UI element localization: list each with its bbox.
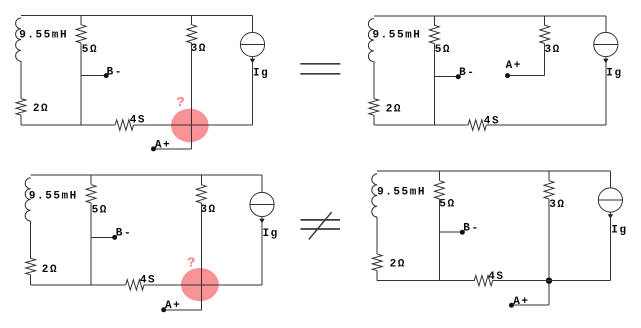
wire 3Ω branch lower (bottom-left circuit) — [200, 203, 202, 285]
wire 3Ω branch upper (top-left circuit) — [191, 15, 193, 24]
wire node B- stub (bottom-right circuit) — [439, 231, 462, 233]
wire node A+ stub (bottom-left circuit) — [164, 309, 202, 311]
wire 5Ω branch upper (bottom-left circuit) — [90, 175, 92, 185]
svg-text:2Ω: 2Ω — [390, 259, 406, 271]
svg-text:5Ω: 5Ω — [82, 44, 98, 56]
wire 3Ω branch upper (bottom-left circuit) — [200, 175, 202, 185]
svg-text:2Ω: 2Ω — [42, 264, 58, 276]
wire bottom left (bottom-left circuit) — [31, 284, 126, 286]
wire 5Ω branch lower (bottom-left circuit) — [90, 203, 92, 285]
node A+ terminal dot (bottom-left circuit) — [161, 307, 166, 312]
svg-text:9.55mH: 9.55mH — [377, 187, 426, 199]
current source Ig chord (bottom-left circuit) — [250, 204, 274, 206]
wire top (top-right circuit) — [374, 15, 606, 17]
wire bottom right (top-left circuit) — [134, 124, 253, 126]
wire 5Ω branch lower (bottom-right circuit) — [438, 199, 440, 281]
wire 3Ω branch lower (bottom-right circuit) — [548, 199, 550, 281]
wire left lower (top-right circuit) — [373, 115, 375, 125]
resistor 3Ω (bottom-right circuit) — [544, 181, 554, 199]
wire left lower (bottom-left circuit) — [30, 275, 32, 285]
wire bottom right (bottom-left circuit) — [144, 284, 262, 286]
wire 3Ω branch lower (top-right circuit) — [544, 44, 546, 76]
resistor 2Ω (bottom-left circuit) — [26, 258, 36, 275]
wire bottom left (top-right circuit) — [374, 124, 468, 126]
svg-text:B-: B- — [116, 227, 132, 239]
svg-text:?: ? — [187, 255, 195, 271]
inductor 9.55mH (top-right circuit) — [368, 19, 373, 62]
wire bottom right (top-right circuit) — [486, 124, 605, 126]
wire bottom right (bottom-right circuit) — [493, 280, 611, 282]
resistor 3Ω (top-right circuit) — [540, 25, 550, 43]
svg-text:A+: A+ — [506, 60, 522, 72]
wire node A+ stub (bottom-right circuit) — [512, 304, 550, 306]
resistor 2Ω (bottom-right circuit) — [372, 254, 382, 271]
wire left mid (top-left circuit) — [20, 61, 22, 98]
node A+ terminal dot (top-right circuit) — [505, 73, 510, 78]
wire source branch lower (bottom-left circuit) — [261, 217, 263, 285]
node A+ terminal dot (top-left circuit) — [151, 146, 156, 151]
resistor 4S (top-right circuit) — [468, 120, 486, 130]
wire left lower (bottom-right circuit) — [376, 271, 378, 281]
svg-text:Ig: Ig — [606, 68, 622, 80]
wire source branch lower (top-left circuit) — [252, 57, 254, 125]
node A+ terminal dot (bottom-right circuit) — [509, 303, 514, 308]
node B- terminal dot (bottom-right circuit) — [460, 230, 465, 235]
svg-text:4S: 4S — [484, 116, 500, 128]
wire source branch lower (top-right circuit) — [605, 57, 607, 125]
wire source branch lower (bottom-right circuit) — [609, 212, 611, 281]
svg-text:A+: A+ — [513, 296, 529, 308]
resistor 5Ω (top-left circuit) — [76, 25, 86, 43]
resistor 2Ω (top-left circuit) — [16, 99, 26, 116]
node B- terminal dot (bottom-left circuit) — [112, 235, 117, 240]
resistor 3Ω (bottom-left circuit) — [196, 185, 206, 203]
junction dot 3Ω/bottom-wire (bottom-right circuit) — [546, 278, 552, 284]
resistor 4S (bottom-right circuit) — [474, 276, 492, 286]
svg-text:Ig: Ig — [253, 68, 269, 80]
equals sign lower bar — [300, 73, 340, 75]
svg-text:9.55mH: 9.55mH — [29, 190, 78, 202]
svg-text:B-: B- — [107, 66, 123, 78]
wire node B- stub (top-right circuit) — [434, 76, 458, 78]
resistor 5Ω (bottom-left circuit) — [86, 185, 96, 203]
svg-text:Ig: Ig — [611, 225, 627, 237]
not-equal sign upper bar — [301, 219, 341, 221]
svg-text:9.55mH: 9.55mH — [19, 30, 68, 42]
not-equal sign lower bar — [301, 228, 341, 230]
wire bottom left (bottom-right circuit) — [377, 280, 474, 282]
svg-text:9.55mH: 9.55mH — [373, 30, 422, 42]
svg-text:5Ω: 5Ω — [439, 199, 455, 211]
highlight circle (top-left circuit) — [171, 109, 209, 143]
node B- terminal dot (top-right circuit) — [456, 74, 461, 79]
current source Ig arrowhead (top-left circuit) — [250, 59, 255, 64]
current source Ig circle (top-left circuit) — [240, 32, 264, 56]
wire node A+ stub (top-right circuit) — [508, 75, 545, 77]
wire left mid (top-right circuit) — [373, 62, 375, 99]
wire 3Ω branch lower (top-left circuit) — [191, 43, 193, 125]
current source Ig arrowhead (top-right circuit) — [603, 59, 608, 64]
wire 5Ω branch upper (top-right circuit) — [433, 16, 435, 25]
current source Ig circle (bottom-left circuit) — [250, 192, 274, 216]
svg-text:2Ω: 2Ω — [386, 104, 402, 116]
inductor 9.55mH (top-left circuit) — [16, 18, 21, 61]
current source Ig chord (top-right circuit) — [594, 44, 618, 46]
wire left mid (bottom-right circuit) — [376, 217, 378, 254]
wire node B- stub (bottom-left circuit) — [91, 236, 115, 238]
resistor 3Ω (top-left circuit) — [187, 25, 197, 43]
current source Ig chord (bottom-right circuit) — [598, 199, 622, 201]
svg-text:3Ω: 3Ω — [545, 44, 561, 56]
resistor 4S (bottom-left circuit) — [126, 280, 144, 290]
svg-text:3Ω: 3Ω — [549, 199, 565, 211]
svg-text:5Ω: 5Ω — [435, 44, 451, 56]
current source Ig circle (bottom-right circuit) — [598, 188, 622, 212]
svg-text:2Ω: 2Ω — [33, 103, 49, 115]
wire source branch upper (top-left circuit) — [252, 15, 254, 32]
wire top (bottom-right circuit) — [377, 170, 610, 172]
wire top (bottom-left circuit) — [31, 174, 262, 176]
resistor 5Ω (bottom-right circuit) — [435, 181, 445, 199]
wire 5Ω branch upper (top-left circuit) — [80, 15, 82, 24]
svg-text:3Ω: 3Ω — [200, 204, 216, 216]
wire source branch upper (bottom-left circuit) — [261, 175, 263, 192]
wire 3Ω branch upper (bottom-right circuit) — [548, 171, 550, 181]
wire 5Ω branch lower (top-right circuit) — [433, 44, 435, 126]
svg-text:5Ω: 5Ω — [92, 204, 108, 216]
svg-text:3Ω: 3Ω — [191, 43, 207, 55]
wire A+ drop (top-left circuit) — [191, 125, 193, 149]
svg-text:A+: A+ — [165, 300, 181, 312]
not-equal sign slash — [309, 212, 332, 240]
resistor 5Ω (top-right circuit) — [429, 25, 439, 43]
wire top (top-left circuit) — [21, 14, 253, 16]
wire source branch upper (top-right circuit) — [605, 16, 607, 33]
wire left mid (bottom-left circuit) — [30, 221, 32, 258]
svg-text:?: ? — [176, 95, 184, 111]
wire A+ drop (bottom-right circuit) — [548, 281, 550, 306]
svg-text:B-: B- — [459, 67, 475, 79]
highlight circle (bottom-left circuit) — [181, 268, 219, 301]
svg-text:A+: A+ — [155, 140, 171, 152]
svg-text:Ig: Ig — [263, 228, 279, 240]
equals sign upper bar — [300, 63, 340, 65]
wire left lower (top-left circuit) — [20, 115, 22, 125]
current source Ig circle (top-right circuit) — [594, 32, 618, 56]
wire node B- stub (top-left circuit) — [81, 75, 106, 77]
wire node A+ stub (top-left circuit) — [154, 148, 192, 150]
wire 3Ω branch upper (top-right circuit) — [544, 16, 546, 25]
svg-text:B-: B- — [463, 222, 479, 234]
wire A+ drop (bottom-left circuit) — [200, 285, 202, 310]
wire 5Ω branch lower (top-left circuit) — [80, 43, 82, 125]
inductor 9.55mH (bottom-right circuit) — [372, 174, 377, 217]
current source Ig chord (top-left circuit) — [240, 44, 264, 46]
wire bottom left (top-left circuit) — [21, 124, 115, 126]
inductor 9.55mH (bottom-left circuit) — [25, 178, 30, 221]
resistor 2Ω (top-right circuit) — [369, 99, 379, 116]
node B- terminal dot (top-left circuit) — [104, 73, 109, 78]
resistor 4S (top-left circuit) — [115, 120, 133, 130]
current source Ig arrowhead (bottom-right circuit) — [608, 214, 613, 219]
wire 5Ω branch upper (bottom-right circuit) — [438, 171, 440, 181]
wire source branch upper (bottom-right circuit) — [609, 171, 611, 188]
current source Ig arrowhead (bottom-left circuit) — [259, 219, 264, 224]
